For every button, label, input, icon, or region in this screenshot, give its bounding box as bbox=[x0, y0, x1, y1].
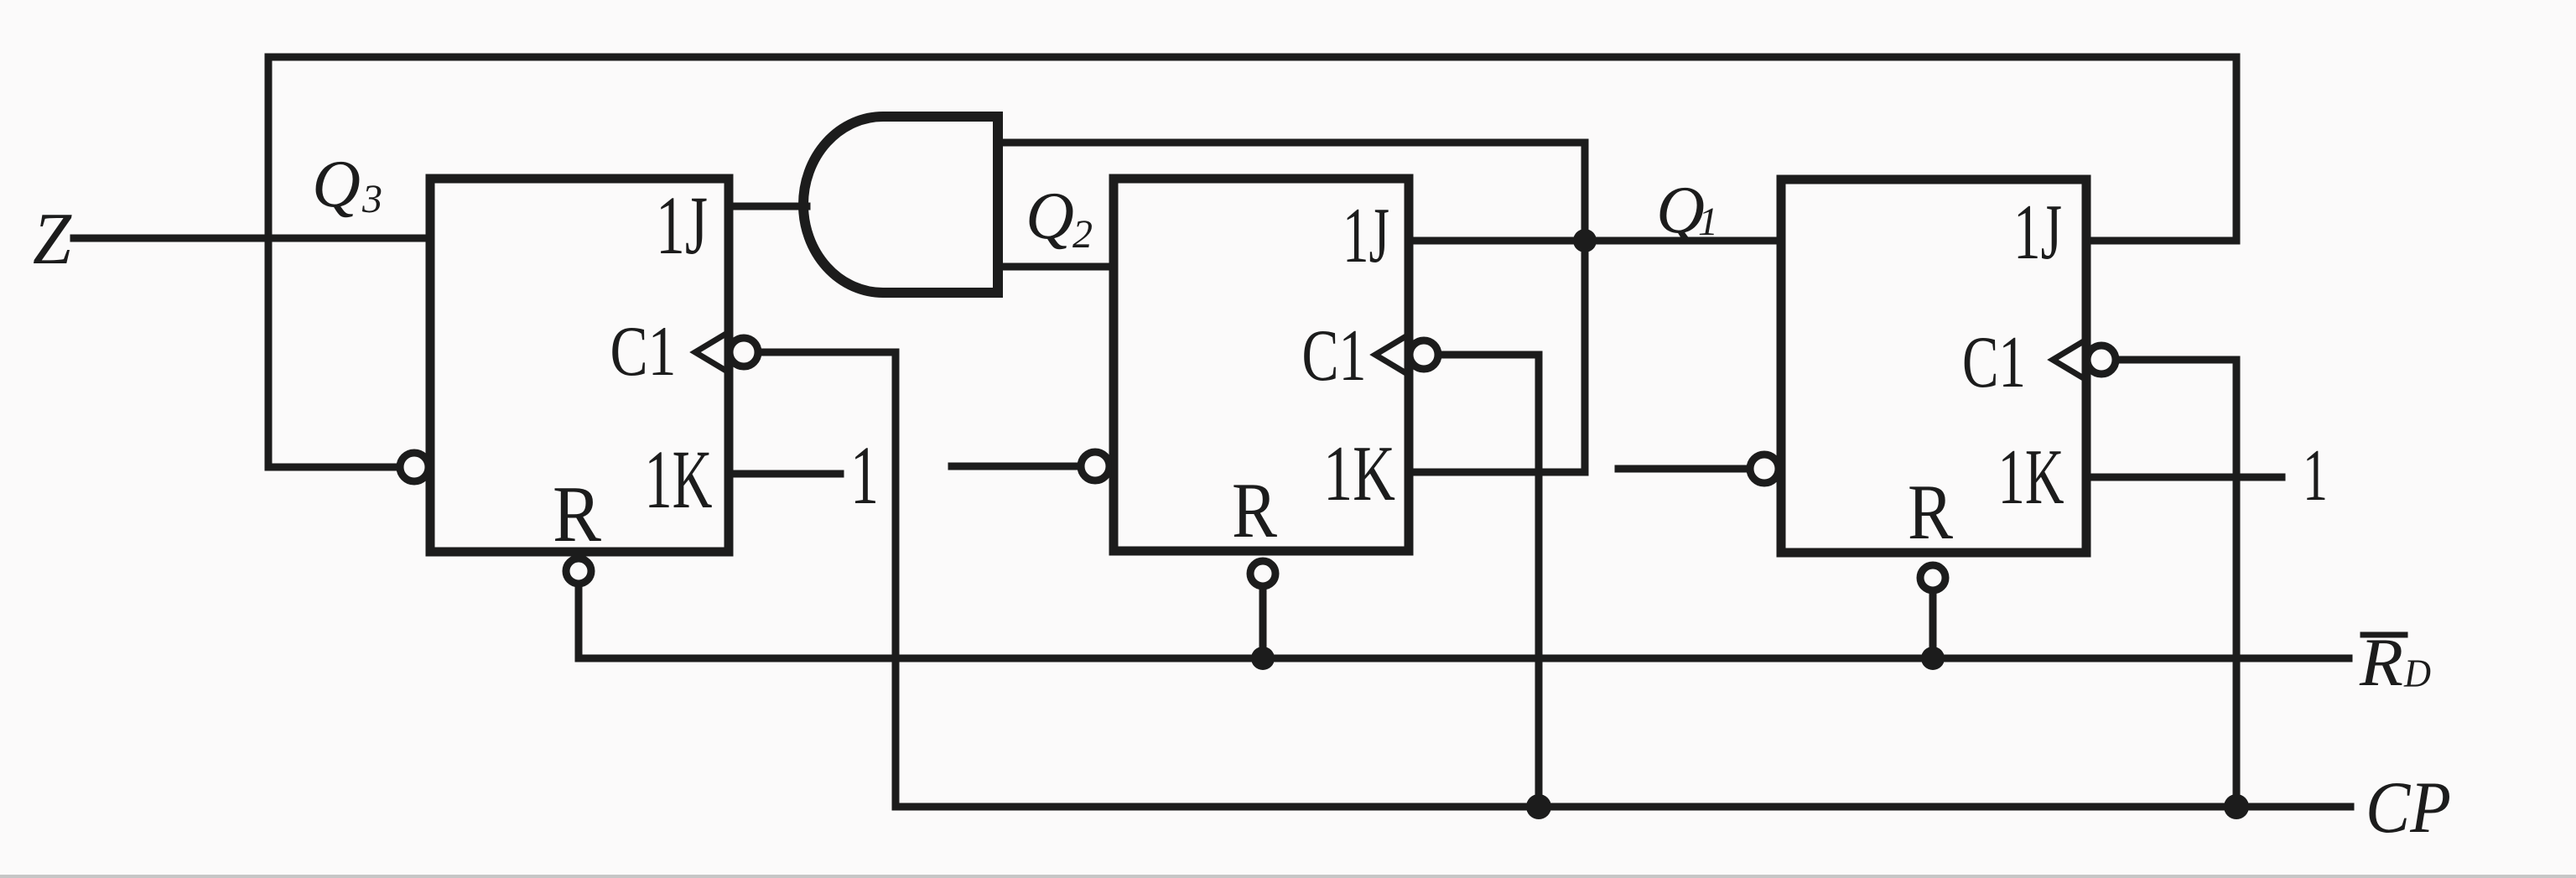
svg-text:1: 1 bbox=[850, 429, 879, 522]
wire Z output line bbox=[74, 235, 430, 242]
FF1 clock bubble bbox=[2087, 345, 2116, 374]
node Q2 label bbox=[1026, 179, 1093, 257]
svg-text:Z: Z bbox=[33, 199, 72, 280]
junction dot Q1 net bbox=[1573, 229, 1597, 252]
flip-flop FF2 box bbox=[1114, 179, 1409, 551]
svg-text:R: R bbox=[1232, 467, 1277, 554]
FF1 1K constant 1 label bbox=[2303, 435, 2328, 517]
svg-text:1J: 1J bbox=[2013, 189, 2062, 276]
wire FF1 1K stub bbox=[2086, 474, 2282, 481]
FF2 Qbar bubble bbox=[1081, 452, 1109, 481]
wire FF3 R to RD bus bbox=[575, 587, 583, 658]
svg-text:1K: 1K bbox=[1998, 434, 2064, 521]
FF1 pin label 1K bbox=[1998, 434, 2064, 521]
junction dot FF1 clock on CP bus bbox=[2224, 794, 2249, 819]
wire FF3 1K stub bbox=[729, 470, 840, 478]
FF2 pin label 1J bbox=[1343, 192, 1389, 279]
FF2 clock triangle bbox=[1375, 335, 1409, 375]
FF3 Qbar bubble bbox=[400, 453, 428, 481]
wire AND bottom input from Q2 bbox=[998, 263, 1114, 271]
svg-text:D: D bbox=[2403, 652, 2431, 696]
svg-text:Q: Q bbox=[1026, 179, 1074, 253]
wire FF2 C1 to CP drop bbox=[1440, 355, 1539, 807]
wire CP bus bbox=[896, 803, 2350, 811]
FF3 1K constant 1 label bbox=[850, 429, 879, 522]
FF1 Qbar bubble bbox=[1750, 455, 1779, 483]
FF3 pin label R bbox=[553, 470, 602, 558]
node Z label bbox=[33, 199, 72, 280]
FF1 clock triangle bbox=[2053, 340, 2086, 380]
svg-text:1J: 1J bbox=[1343, 192, 1389, 279]
FF1 reset bubble bbox=[1920, 565, 1945, 590]
FF3 reset bubble bbox=[566, 558, 591, 584]
wire Q1 line FF1 to FF2 1J bbox=[1409, 237, 1781, 245]
wire FF1 R to RD bus bbox=[1929, 594, 1937, 658]
svg-text:1K: 1K bbox=[645, 433, 713, 526]
flip-flop FF3 box bbox=[430, 179, 729, 552]
svg-text:C1: C1 bbox=[610, 312, 677, 391]
junction dot FF1 R on RD bus bbox=[1921, 647, 1945, 670]
wire AND top input from Q1 net bbox=[998, 143, 1585, 472]
wire FF2 R to RD bus bbox=[1259, 590, 1267, 658]
svg-text:1: 1 bbox=[1698, 200, 1718, 244]
wire FF1 Qbar stub bbox=[1618, 465, 1750, 473]
wire FF1 C1 to CP drop bbox=[2117, 360, 2236, 807]
svg-text:2: 2 bbox=[1072, 212, 1093, 257]
node Q1 label bbox=[1656, 174, 1718, 247]
junction dot FF2 clock on CP bus bbox=[1526, 794, 1551, 819]
junction dot FF2 R on RD bus bbox=[1251, 647, 1275, 670]
FF2 pin label C1 bbox=[1302, 315, 1367, 397]
svg-text:C1: C1 bbox=[1302, 315, 1367, 397]
svg-text:1K: 1K bbox=[1323, 430, 1395, 517]
FF2 reset bubble bbox=[1250, 561, 1275, 586]
FF1 pin label C1 bbox=[1962, 322, 2026, 403]
wire FF2 Qbar stub bbox=[952, 463, 1081, 470]
FF1 pin label R bbox=[1908, 469, 1953, 556]
svg-text:1: 1 bbox=[2303, 435, 2328, 517]
node RD-bar label bbox=[2359, 624, 2431, 700]
flip-flop FF1 box bbox=[1781, 179, 2086, 553]
FF3 clock bubble bbox=[730, 338, 758, 366]
wire FF3 1J to AND output bbox=[729, 203, 807, 210]
scan edge shading bottom bbox=[0, 875, 2576, 878]
FF2 pin label 1K bbox=[1323, 430, 1395, 517]
FF1 pin label 1J bbox=[2013, 189, 2062, 276]
svg-text:CP: CP bbox=[2366, 767, 2451, 849]
wire top feedback to FF1 1J bbox=[268, 57, 2236, 241]
FF3 clock triangle bbox=[695, 332, 729, 372]
svg-text:1J: 1J bbox=[656, 179, 708, 272]
svg-text:Q: Q bbox=[312, 148, 361, 221]
FF2 pin label R bbox=[1232, 467, 1277, 554]
wire Q3-bar vertical feedback (left) bbox=[268, 57, 400, 467]
node CP label bbox=[2366, 767, 2451, 849]
FF3 pin label 1J bbox=[656, 179, 708, 272]
node Q3 label bbox=[312, 148, 382, 221]
wire RD bus bbox=[579, 655, 2349, 662]
wire FF3 C1 to CP drop bbox=[760, 352, 896, 807]
FF3 pin label 1K bbox=[645, 433, 713, 526]
svg-text:C1: C1 bbox=[1962, 322, 2026, 403]
FF2 clock bubble bbox=[1410, 340, 1438, 369]
svg-text:R: R bbox=[553, 470, 602, 558]
svg-text:3: 3 bbox=[361, 177, 382, 221]
gate AND (2-input) bbox=[803, 117, 998, 293]
FF3 pin label C1 bbox=[610, 312, 677, 391]
svg-text:R: R bbox=[1908, 469, 1953, 556]
